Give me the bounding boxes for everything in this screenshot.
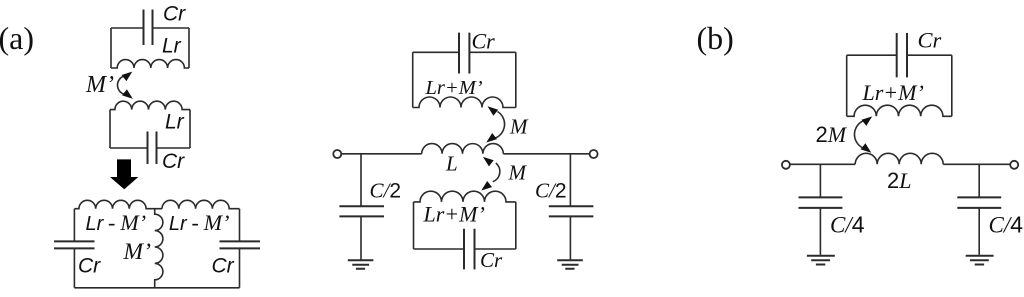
coupling arrow M upper bottom head bbox=[486, 133, 497, 143]
coupling arrow M' bottom head bbox=[122, 89, 133, 99]
ground left (b) bbox=[807, 256, 835, 265]
shunt branch left wire (b) bbox=[819, 164, 821, 255]
b top loop right edge wire bbox=[951, 55, 953, 116]
ground right (b) bbox=[966, 256, 994, 265]
shunt branch right wire (b) bbox=[978, 164, 980, 255]
coupling arrow 2M arc bbox=[854, 121, 864, 149]
main line (mid) bbox=[342, 153, 590, 155]
svg-text:M’: M’ bbox=[85, 72, 114, 98]
svg-text:2L: 2L bbox=[887, 168, 912, 193]
capacitor C/2 left (mid) bbox=[339, 206, 384, 216]
coupling arrow M lower top head bbox=[483, 157, 494, 167]
inductor Lr-M' (right) bbox=[162, 200, 240, 208]
coupling arrow M' arc bbox=[117, 76, 126, 95]
inductor Lr+M' (mid top) bbox=[413, 97, 516, 108]
mid bottom loop left edge wire bbox=[413, 202, 415, 249]
svg-text:(a): (a) bbox=[0, 20, 34, 56]
coupling arrow 2M top head bbox=[862, 116, 873, 126]
svg-text:Cr: Cr bbox=[472, 28, 496, 53]
svg-text:Lr+M’: Lr+M’ bbox=[425, 77, 483, 99]
capacitor Cr (loop1) bbox=[144, 10, 153, 46]
resonator loop 2 left edge wire bbox=[109, 110, 111, 148]
svg-text:Lr-M’: Lr-M’ bbox=[169, 210, 230, 235]
inductor Lr (loop1) bbox=[111, 60, 189, 68]
svg-text:M: M bbox=[509, 115, 529, 139]
resonator loop 1 left edge wire bbox=[110, 28, 112, 68]
svg-text:Cr: Cr bbox=[918, 28, 942, 53]
inductor M' vertical branch bbox=[155, 209, 163, 288]
main line (b) bbox=[790, 163, 1010, 165]
svg-text:Cr: Cr bbox=[78, 255, 101, 278]
mid top loop right edge wire bbox=[515, 52, 517, 107]
capacitor Cr (loop2) bbox=[148, 132, 157, 165]
svg-text:M’: M’ bbox=[123, 239, 152, 265]
terminal left (b) bbox=[782, 161, 790, 169]
transform arrow (a) bbox=[110, 159, 138, 189]
inductor Lr-M' (left) bbox=[74, 200, 162, 208]
b top loop left edge wire bbox=[846, 55, 848, 116]
svg-text:C/4: C/4 bbox=[989, 212, 1024, 238]
mid top loop top wire segments bbox=[413, 51, 516, 53]
svg-text:Cr: Cr bbox=[480, 248, 503, 272]
svg-text:C/4: C/4 bbox=[830, 212, 865, 238]
inductor L (mid) bbox=[422, 144, 504, 154]
resonator loop 1 top wire segments bbox=[111, 27, 189, 29]
inductor 2L (b) bbox=[855, 153, 943, 164]
ground left (mid) bbox=[348, 260, 374, 269]
terminal right (b) bbox=[1010, 161, 1018, 169]
mid top loop left edge wire bbox=[412, 52, 414, 107]
terminal left (mid) bbox=[333, 150, 341, 158]
capacitor C/4 right (b) bbox=[957, 197, 1001, 208]
capacitor Cr (mid top) bbox=[459, 33, 469, 74]
bottom network outer right edge wire bbox=[239, 209, 241, 288]
capacitor Cr (bottom-right) bbox=[220, 241, 261, 248]
capacitor Cr (b) bbox=[897, 33, 907, 77]
svg-text:L: L bbox=[445, 152, 458, 176]
svg-text:Lr: Lr bbox=[162, 34, 182, 57]
svg-text:C/2: C/2 bbox=[535, 179, 567, 203]
coupling arrow M lower arc bbox=[493, 163, 500, 182]
coupling arrow M lower bottom head bbox=[481, 181, 492, 191]
svg-text:2M: 2M bbox=[816, 122, 848, 147]
resonator loop 2 bottom wire segments bbox=[110, 147, 190, 149]
coupling arrow M upper top head bbox=[488, 106, 499, 116]
bottom network bottom wire bbox=[74, 287, 239, 289]
svg-text:Cr: Cr bbox=[163, 2, 186, 25]
svg-text:Lr-M’: Lr-M’ bbox=[86, 210, 147, 235]
svg-text:M: M bbox=[508, 161, 528, 185]
b top loop top wire segments bbox=[847, 54, 952, 56]
resonator loop 1 right edge wire bbox=[188, 28, 190, 68]
capacitor Cr (mid bottom) bbox=[464, 229, 475, 270]
svg-text:Cr: Cr bbox=[212, 255, 235, 278]
ground right (mid) bbox=[557, 260, 583, 269]
coupling arrow M' top head bbox=[122, 72, 133, 82]
coupling arrow M upper arc bbox=[496, 112, 505, 139]
resonator loop 2 right edge wire bbox=[189, 110, 191, 148]
inductor Lr (loop2) bbox=[110, 101, 190, 109]
capacitor C/2 right (mid) bbox=[549, 206, 594, 216]
capacitor C/4 left (b) bbox=[799, 197, 843, 208]
svg-text:Cr: Cr bbox=[162, 150, 185, 173]
inductor Lr+M' (mid bottom) bbox=[414, 191, 516, 202]
svg-text:Lr: Lr bbox=[165, 111, 185, 134]
terminal right (mid) bbox=[590, 150, 598, 158]
bottom network outer left edge wire bbox=[73, 209, 75, 288]
svg-text:(b): (b) bbox=[697, 20, 734, 56]
svg-text:Lr+M’: Lr+M’ bbox=[862, 80, 924, 105]
inductor Lr+M' (b) bbox=[847, 105, 952, 116]
shunt branch right wire (mid) bbox=[569, 154, 571, 260]
capacitor Cr (bottom-left) bbox=[54, 241, 95, 248]
coupling arrow 2M bottom head bbox=[861, 143, 872, 153]
shunt branch left wire (mid) bbox=[360, 154, 362, 260]
svg-text:Lr+M’: Lr+M’ bbox=[423, 202, 485, 227]
mid bottom loop right edge wire bbox=[515, 202, 517, 249]
svg-text:C/2: C/2 bbox=[370, 179, 402, 203]
mid bottom loop bottom wire segments bbox=[414, 248, 516, 250]
